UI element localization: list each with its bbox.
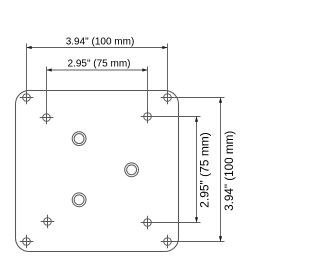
inset hole bottom-left (75mm pattern) <box>41 215 55 229</box>
svg-text:2.95" (75 mm): 2.95" (75 mm) <box>67 59 130 70</box>
extension line for 75mm top-right hole <box>147 67 149 117</box>
dimension line 100mm vertical <box>220 98 222 242</box>
grommet hole upper-left (double circle) <box>72 132 86 146</box>
arrowhead left of 100mm horizontal <box>27 46 32 49</box>
grommet hole middle-right (double circle) <box>125 163 139 177</box>
extension line right 100mm top <box>168 97 225 99</box>
dimension line 75mm vertical <box>196 117 198 223</box>
arrowhead right of 75mm horizontal <box>142 68 147 71</box>
dimension line 75mm horizontal <box>47 69 148 71</box>
arrowhead right of 100mm horizontal <box>162 46 167 49</box>
extension line for 100mm top-left hole <box>26 44 28 98</box>
arrowhead bottom of 75mm vertical <box>195 217 198 222</box>
arrowhead top of 75mm vertical <box>195 117 198 122</box>
inset hole bottom-right (75mm pattern) <box>141 216 155 230</box>
arrowhead top of 100mm vertical <box>219 98 222 103</box>
inset hole top-right (75mm pattern) <box>141 110 155 124</box>
arrowhead bottom of 100mm vertical <box>219 236 222 241</box>
corner hole bottom-right (100mm pattern) <box>161 235 175 249</box>
grommet hole lower-left (double circle) <box>72 193 86 207</box>
inset hole top-left (75mm pattern) <box>40 111 54 125</box>
corner hole top-left (100mm pattern) <box>20 91 34 105</box>
svg-text:3.94" (100 mm): 3.94" (100 mm) <box>223 131 236 211</box>
extension line right 75mm bottom <box>148 222 201 224</box>
svg-text:3.94" (100 mm): 3.94" (100 mm) <box>66 37 135 48</box>
dimension line 100mm horizontal <box>27 47 168 49</box>
corner hole top-right (100mm pattern) <box>161 91 175 105</box>
plate outline <box>16 91 179 252</box>
extension line right 75mm top <box>148 116 201 118</box>
extension line for 75mm top-left hole <box>46 67 48 118</box>
corner hole bottom-left (100mm pattern) <box>20 235 34 249</box>
extension line right 100mm bottom <box>168 241 225 243</box>
extension line for 100mm top-right hole <box>167 44 169 98</box>
arrowhead left of 75mm horizontal <box>47 68 52 71</box>
svg-text:2.95" (75 mm): 2.95" (75 mm) <box>197 132 211 208</box>
